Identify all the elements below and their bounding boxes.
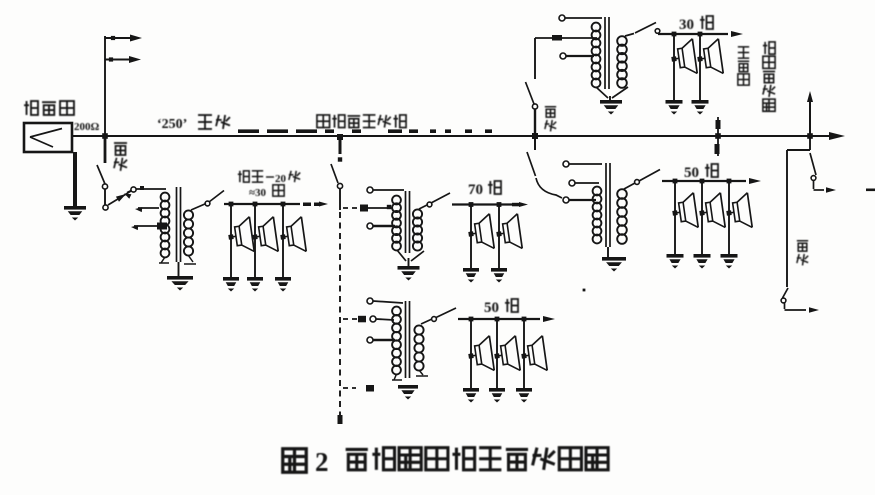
loudspeaker LS3a [466, 336, 494, 374]
wire: drop 1 on bus B2 [469, 202, 474, 268]
ground: LS4b earth [692, 100, 709, 115]
node: trunk junction left [102, 133, 108, 139]
svg-text:≈30: ≈30 [249, 187, 267, 199]
transformer T1 bottom hooks [159, 255, 196, 264]
transformer T4 core [606, 163, 610, 247]
transformer T2 primary winding [392, 196, 401, 251]
loudspeaker LS5a [670, 193, 698, 231]
wire: upper branch with arrow [105, 35, 142, 42]
loudspeaker LS2b [494, 214, 522, 252]
loudspeaker LS4b [695, 39, 723, 77]
transformer T1 secondary winding [184, 210, 193, 255]
wire: drop 2 on bus B1 [253, 202, 258, 277]
ground: LS5a earth [667, 254, 684, 269]
transformer T5 tap 1 [367, 298, 403, 304]
stray mark [583, 289, 586, 292]
wire: speaker bus B4 [658, 31, 743, 37]
wire: S12 out arrow [785, 302, 820, 313]
label 50伏 [684, 164, 718, 181]
label 200Ω [74, 121, 100, 133]
broadcast station box [24, 123, 72, 152]
ground: LS3b earth [489, 388, 505, 403]
switch S3 blade [209, 191, 224, 203]
transformer T3 tap 1 [559, 15, 602, 21]
ground: LS3a earth [463, 388, 479, 403]
wire: T3 secondary lead [625, 34, 634, 37]
wire: T1 secondary lead [191, 201, 210, 210]
switch S9 blade [527, 152, 536, 176]
wire: up arrow [807, 91, 813, 136]
transformer T3 core [605, 17, 609, 89]
ground: LS3c earth [516, 388, 532, 403]
label 250Ω 干线 (trunk) [157, 115, 230, 132]
trunk right end arrowhead [829, 132, 845, 140]
switch S7 blade [526, 82, 535, 104]
wire: drop from trunk [534, 136, 536, 150]
switch S5 blade [431, 193, 450, 203]
wire: right branch down [787, 136, 810, 287]
transformer T4 tap 3 [563, 197, 596, 203]
label 区域配电线路 (district power line) [317, 115, 406, 128]
loudspeaker LS1a [226, 217, 254, 255]
ground: T4 earth [602, 257, 626, 272]
ground: LS4a earth [666, 100, 683, 115]
transformer T5 tap 3 [367, 337, 395, 343]
transformer T5 secondary winding [414, 325, 423, 370]
label 支线 vertical [545, 107, 556, 132]
transformer T3 secondary winding [617, 36, 627, 88]
wire: speaker bus B5 [662, 178, 761, 184]
wire [104, 189, 106, 205]
ground: LS5b earth [694, 254, 711, 269]
wire: drop 2 on bus B4 [698, 32, 703, 100]
wire: riser to T3 [532, 104, 537, 136]
wire: drop 1 on bus B1 [229, 202, 234, 277]
wire: speaker bus B1 [224, 202, 328, 207]
wire: speaker bus B3 [458, 316, 555, 322]
transformer T4 tap 2 [569, 180, 599, 186]
transformer T1 core [177, 187, 181, 262]
switch S4 blade [331, 164, 343, 189]
loudspeaker LS1b [250, 217, 278, 255]
node: trunk junction mid [337, 134, 343, 140]
transformer T5 tap 2 from feeder [343, 316, 394, 323]
wire: station down lead [73, 152, 77, 206]
wire: feeder stub (dashed) [343, 385, 374, 392]
label 支线 (branch) vertical [114, 143, 127, 171]
wire: station to trunk [72, 135, 105, 137]
svg-text:20: 20 [275, 173, 287, 185]
caption 圖 2 有線廣播網佈置示意圖 [283, 447, 608, 477]
label 30伏 [679, 16, 713, 33]
switch S1 (open blade) [97, 165, 108, 189]
wire: T3 to earth (Y) [596, 87, 628, 100]
wire: speaker bus B2 [452, 202, 528, 207]
wire: tap to T2 (dashed) [343, 205, 392, 212]
wire: T5 secondary lead [421, 317, 436, 324]
label 电-线20米/30米 [238, 171, 300, 199]
ground: T2 earth [398, 266, 420, 281]
wire: drop 2 on bus B2 [497, 202, 502, 268]
transformer T2 tap 3 [367, 223, 395, 229]
svg-text:70: 70 [468, 182, 483, 198]
ground: T5 earth [398, 385, 418, 400]
wire: down from junction [104, 136, 107, 163]
ground: LS5c earth [721, 254, 738, 269]
wire: T4 secondary lead [624, 180, 639, 189]
ground: LS2b earth [491, 268, 507, 283]
transformer T3 tap 3 [560, 53, 594, 59]
loudspeaker LS3c [519, 336, 547, 374]
svg-text:30: 30 [679, 17, 694, 33]
wire: T4 to earth [607, 247, 609, 257]
wire: T1 to earth [178, 262, 180, 276]
loudspeaker LS1c [278, 217, 306, 255]
wire: S11 out arrow [814, 180, 837, 193]
wire: feeder down (dashed) [338, 188, 343, 424]
wire: drop 2 on bus B5 [700, 179, 705, 254]
transformer T3 primary winding [592, 23, 601, 88]
wire: drop 3 on bus B1 [281, 202, 286, 277]
switch S11 blade [810, 153, 816, 180]
transformer T2 core [406, 191, 410, 253]
transformer T4 secondary winding [617, 189, 627, 244]
svg-text:200Ω: 200Ω [74, 121, 100, 133]
wire: drop 2 on bus B3 [495, 317, 500, 388]
transformer T4 tap 1 [563, 161, 602, 167]
ground: LS1a earth [223, 277, 239, 292]
transformer T2 secondary winding [413, 209, 422, 250]
svg-text:50: 50 [484, 300, 499, 316]
label 播音台 (broadcast station) [24, 101, 74, 115]
wire: bend to T4 [536, 178, 562, 198]
transformer T4 primary winding [593, 187, 602, 244]
svg-text:50: 50 [684, 165, 699, 181]
loudspeaker LS5b [697, 193, 725, 231]
wire: lower branch with arrow [105, 56, 141, 63]
wire: drop from trunk [338, 137, 342, 162]
wire: insulator stub crossing trunk [715, 117, 721, 156]
loudspeaker LS3b [492, 336, 520, 374]
ground: LS1c earth [275, 277, 291, 292]
ground: LS1b earth [247, 277, 263, 292]
wire: drop 1 on bus B5 [673, 179, 678, 254]
tick at right edge [866, 189, 875, 192]
switch S6 blade [436, 308, 456, 318]
node: trunk junction right [807, 133, 813, 139]
ground: T3 earth [600, 100, 622, 115]
transformer T1 tap 3 [131, 223, 167, 231]
label right column 1 [738, 47, 749, 85]
transformer T5 bottom hooks [392, 370, 428, 380]
transformer T1 primary winding [161, 193, 170, 258]
loudspeaker LS2a [466, 214, 494, 252]
wire: main trunk line [72, 129, 830, 136]
ground: T1 earth [167, 276, 193, 291]
label 70伏 [468, 181, 501, 198]
transformer T2 tap 1 [367, 187, 404, 193]
label right column 2 [763, 42, 775, 111]
switch S10 blade [639, 170, 660, 182]
switch S2 pivot [103, 205, 108, 210]
wire: drop 1 on bus B4 [672, 32, 677, 100]
loudspeaker LS4a [669, 39, 697, 77]
wire: drop 3 on bus B3 [522, 317, 527, 388]
label 支线 vertical (right) [797, 241, 808, 266]
node: trunk junction right-mid [532, 133, 538, 139]
transformer T5 primary winding [392, 307, 401, 375]
switch S8 blade [635, 23, 660, 34]
wire: T2 secondary lead [419, 202, 432, 209]
wire: drop 1 on bus B3 [469, 317, 474, 388]
transformer T1 tap 2 [135, 207, 159, 212]
wire: T2 to earth (Y) [397, 250, 424, 266]
ground: LS2a earth [463, 268, 479, 283]
ground: station earth [64, 206, 86, 221]
switch S12 blade [781, 288, 788, 303]
wire: branch riser up [104, 36, 106, 136]
wire: riser upper + bend to T3 [535, 35, 597, 79]
loudspeaker LS5c [724, 193, 752, 231]
transformer T5 core [406, 301, 410, 378]
label 50伏 [484, 299, 518, 316]
svg-text:2: 2 [315, 447, 329, 477]
wire: drop 3 on bus B5 [727, 179, 732, 254]
svg-text:‘250’: ‘250’ [157, 117, 187, 132]
wire with arrow to transformer T1 [108, 186, 166, 205]
